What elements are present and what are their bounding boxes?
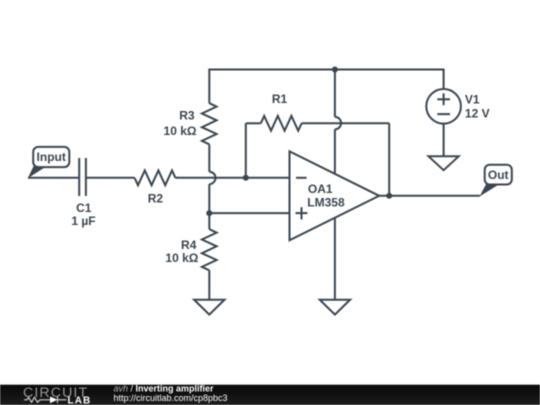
capacitor C1 — [79, 158, 86, 196]
node: R1 feedback tap dot on minus net — [243, 175, 249, 181]
node: rail junction dot — [332, 67, 338, 73]
node: divider junction dot — [206, 210, 212, 216]
wire: op-amp output to Out flag — [379, 195, 480, 197]
wire: C1 to R2 — [86, 177, 135, 179]
ground (op-amp) — [320, 300, 350, 315]
wire: op-amp V+ from rail — [334, 70, 336, 117]
svg-text:http://circuitlab.com/cp8pbc3: http://circuitlab.com/cp8pbc3 — [114, 393, 228, 403]
resistor R1 — [246, 116, 389, 196]
wire: R4 to ground — [208, 270, 210, 299]
resistor R3 — [202, 103, 217, 144]
svg-text:10 kΩ: 10 kΩ — [164, 124, 197, 138]
svg-text:10 kΩ: 10 kΩ — [165, 251, 198, 265]
logo waveform — [24, 397, 67, 403]
logo diode arrow — [50, 396, 58, 403]
svg-text:1 µF: 1 µF — [71, 214, 95, 228]
op-amp OA1 — [290, 151, 380, 240]
wire: V1 to ground — [443, 125, 445, 157]
flag Input — [28, 147, 70, 178]
footer bar — [0, 384, 540, 405]
wire: hop to op-amp top pin — [334, 129, 336, 173]
wire: divider node to R4 — [208, 213, 210, 229]
wire: hop to divider node — [208, 184, 210, 213]
svg-text:V1: V1 — [465, 92, 480, 106]
ground (R4) — [194, 300, 224, 315]
svg-text:LM358: LM358 — [307, 196, 345, 210]
ground (V1) — [429, 156, 459, 170]
wire: R3 to hop — [208, 144, 210, 171]
wire: R2 to op-amp minus input — [175, 177, 289, 179]
svg-text:R3: R3 — [179, 109, 195, 123]
svg-text:Input: Input — [37, 150, 66, 164]
resistor R2 — [135, 170, 176, 185]
wire hop over input net — [209, 172, 215, 184]
svg-text:LAB: LAB — [68, 396, 92, 405]
svg-text:C1: C1 — [76, 201, 92, 215]
svg-text:R4: R4 — [181, 238, 197, 252]
svg-text:OA1: OA1 — [308, 182, 333, 196]
wire: divider node to op-amp plus input — [209, 212, 289, 214]
node: output junction dot — [386, 193, 392, 199]
svg-text:R1: R1 — [272, 92, 288, 106]
resistor R4 — [202, 229, 217, 270]
wire: main input net (flag to op-amp minus) — [28, 177, 79, 179]
flag Out — [480, 165, 512, 197]
svg-text:12 V: 12 V — [465, 107, 490, 121]
op-amp minus pin mark — [296, 177, 307, 179]
op-amp plus pin mark — [296, 207, 308, 219]
wire hop over feedback net — [335, 117, 341, 129]
svg-text:R2: R2 — [148, 191, 164, 205]
wire: top supply rail — [209, 70, 443, 104]
voltage source V1 — [426, 89, 461, 124]
svg-text:Out: Out — [488, 168, 509, 182]
wire: op-amp V- to ground — [334, 218, 336, 300]
